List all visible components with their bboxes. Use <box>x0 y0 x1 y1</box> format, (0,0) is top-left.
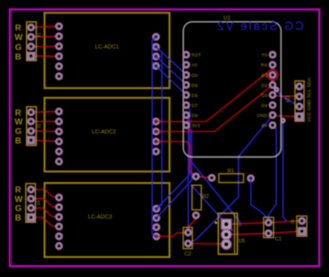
module LC-ADC3 outline <box>45 183 170 257</box>
svg-text:J1: J1 <box>37 32 42 37</box>
wire blue ADC1.r4 to U1 D6 <box>156 66 186 95</box>
svg-text:J2: J2 <box>37 123 42 128</box>
wire J3.1 to ADC3 pad1 <box>31 190 59 198</box>
wire J1.3 to ADC1 pad3 <box>31 45 59 47</box>
connector J3 outline <box>26 184 36 223</box>
svg-text:D1: D1 <box>261 73 267 79</box>
wire red ADC2.r3 to R2.top to R1.left <box>156 142 212 178</box>
wire J1.4 to ADC1 pad4 <box>31 55 59 57</box>
module LC-ADC2 outline <box>45 98 170 172</box>
wire blue ADC1.r2 down to ADC3.r1 <box>156 47 162 209</box>
capacitor C1 outline <box>264 217 274 237</box>
connector U3 outline <box>295 81 304 121</box>
wire J2.1 to ADC2 pad1 <box>31 111 59 114</box>
wire J1.2 to ADC1 pad2 <box>31 35 59 38</box>
wire J2.4 to ADC2 pad4 <box>31 140 59 141</box>
resistor R2 outline <box>192 185 201 210</box>
LC-ADC2 right pads 1-4 <box>153 118 160 125</box>
svg-text:B: B <box>15 213 21 223</box>
svg-text:TX: TX <box>261 53 268 59</box>
wire blue U1 GND down to U5 area <box>188 115 273 243</box>
svg-text:VCC GND SCL SDA: VCC GND SCL SDA <box>307 77 313 122</box>
wire blue ADC1.r3 to U1 D5 <box>156 57 186 85</box>
wire J3.3 to ADC3 pad3 <box>31 208 59 217</box>
wire blue ADC3.r2 diagonal up <box>156 125 191 218</box>
LC-ADC1 left pads 1-6 <box>56 23 63 30</box>
svg-text:J4: J4 <box>290 219 296 224</box>
C1 pads <box>265 219 272 226</box>
module U1 outline <box>183 22 281 157</box>
terminal U5 outline <box>218 213 237 254</box>
terminal U5 inner line <box>234 213 236 254</box>
J4 pads <box>298 217 305 224</box>
svg-text:D5: D5 <box>192 83 198 89</box>
wire red D3 to U3.2 <box>274 95 299 97</box>
wire blue diagonal to U5 area <box>188 157 241 226</box>
U1 right pads TX RX D1 D2 D3 D4 GND 5V <box>269 51 276 58</box>
svg-text:C1: C1 <box>275 237 282 243</box>
module LC-ADC1 outline <box>45 13 170 88</box>
wire blue U1 D8 down to C2.1 <box>186 115 189 232</box>
wire blue ADC1.r1 down to ADC3.r4 <box>152 37 156 237</box>
svg-text:LC-ADC3: LC-ADC3 <box>88 215 112 221</box>
wire red 3V3 to D2 <box>186 85 273 132</box>
red stub ring to RX <box>272 65 274 70</box>
connector J2 outline <box>27 107 37 146</box>
connector J4 outline <box>297 216 307 236</box>
svg-text:R1: R1 <box>227 169 234 175</box>
U1 left pads RST A0 D0 D5 D6 D7 D8 3V3 <box>183 51 190 58</box>
LC-ADC1 right pads 1-4 <box>153 33 160 40</box>
red ring around D1 <box>267 70 278 81</box>
svg-text:A0: A0 <box>192 63 198 69</box>
svg-text:D7: D7 <box>192 103 198 109</box>
wire blue U1 5V down to C1.1 <box>269 125 277 222</box>
svg-text:B: B <box>15 135 21 145</box>
svg-text:RX: RX <box>261 63 268 69</box>
wire red R2.bot to C2.1 <box>188 215 196 232</box>
J2 pads <box>28 109 35 116</box>
svg-text:3V3: 3V3 <box>192 123 201 129</box>
R1 pads <box>208 174 215 181</box>
svg-text:C2: C2 <box>185 252 192 258</box>
via B <box>281 118 285 122</box>
svg-text:B: B <box>15 51 21 61</box>
wire blue via to U3.3 <box>277 90 299 106</box>
wire red U5.2 to C1.2 to J4.2 <box>226 231 302 234</box>
svg-text:R2: R2 <box>202 194 209 200</box>
via A <box>274 87 278 91</box>
wire red C2.2 to U5.3 <box>188 243 226 246</box>
svg-text:U3: U3 <box>286 96 292 103</box>
wire blue via down to J4 <box>283 121 286 221</box>
svg-text:LC-ADC1: LC-ADC1 <box>95 45 119 51</box>
svg-text:D0: D0 <box>192 73 198 79</box>
connector J1 outline <box>27 22 37 61</box>
wire J2.3 to ADC2 pad3 <box>31 130 59 133</box>
svg-text:D3: D3 <box>261 93 267 99</box>
resistor R1 outline <box>219 174 244 183</box>
U1 left pin labels <box>192 53 202 130</box>
U1 right pin labels <box>257 53 268 130</box>
U3 pads <box>296 83 303 90</box>
svg-text:J3: J3 <box>36 200 41 205</box>
svg-text:D4: D4 <box>261 103 267 109</box>
U5 pads <box>221 219 231 229</box>
LC-ADC3 left pads 1-6 <box>56 194 63 201</box>
svg-text:U5: U5 <box>239 239 246 245</box>
svg-text:LC-ADC2: LC-ADC2 <box>92 130 116 136</box>
svg-text:G: G <box>15 42 22 52</box>
wire red ADC3.r4 to C2.1 <box>156 233 188 237</box>
wire blue ADC1.r2 to U1 D0 <box>156 47 186 75</box>
R2 pads <box>193 173 200 180</box>
svg-text:5V: 5V <box>262 123 269 129</box>
svg-text:D8: D8 <box>192 113 198 119</box>
J3 pads <box>28 186 35 193</box>
wire red ADC2.r1 to RX ring <box>156 71 269 121</box>
wire J1.1 to ADC1 pad1 <box>31 26 59 27</box>
U5 origin dot <box>215 222 217 224</box>
LC-ADC3 right pads 1-4 <box>153 205 160 212</box>
capacitor C2 outline <box>183 227 192 248</box>
C2 pads <box>185 229 192 236</box>
svg-text:CG Scale V2: CG Scale V2 <box>218 21 304 33</box>
J1 pads <box>28 24 35 31</box>
svg-text:R: R <box>15 23 22 33</box>
wire J3.4 to ADC3 pad4 <box>31 217 59 226</box>
wire blue diagonal Q <box>191 185 233 231</box>
svg-text:W: W <box>15 117 24 127</box>
wire red ADC2.r2 join <box>156 131 191 133</box>
svg-text:GND: GND <box>257 113 268 119</box>
wire J2.2 to ADC2 pad2 <box>31 120 59 122</box>
wire J3.2 to ADC3 pad2 <box>31 199 59 208</box>
svg-text:D2: D2 <box>261 83 267 89</box>
svg-text:W: W <box>15 32 24 42</box>
wire blue R1.right down <box>251 178 269 219</box>
wire red GND to U3.4 <box>273 115 299 116</box>
wire blue ADC3.r1 diagonal up <box>156 105 189 209</box>
LC-ADC2 left pads 1-6 <box>56 108 63 115</box>
wire red U5.1 to C1.1 to J4.1 <box>226 221 302 224</box>
svg-text:RST: RST <box>192 53 202 59</box>
svg-text:D6: D6 <box>192 93 198 99</box>
